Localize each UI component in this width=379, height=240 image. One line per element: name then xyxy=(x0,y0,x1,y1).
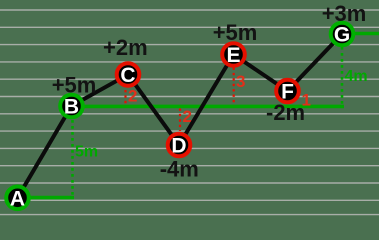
svg-text:5m: 5m xyxy=(75,144,98,161)
svg-text:3: 3 xyxy=(236,72,245,91)
baseline A level xyxy=(30,196,74,200)
node A xyxy=(6,187,29,211)
dotted 5m measure xyxy=(71,120,74,197)
svg-text:B: B xyxy=(64,96,79,119)
node D xyxy=(168,134,191,158)
svg-text:-2m: -2m xyxy=(266,100,305,125)
baseline G level xyxy=(354,32,379,36)
node G xyxy=(331,23,354,47)
svg-text:-4m: -4m xyxy=(160,156,199,181)
svg-text:+3m: +3m xyxy=(322,1,367,26)
red dotted E drop xyxy=(233,68,235,105)
svg-text:E: E xyxy=(226,44,240,67)
dotted 4m measure xyxy=(341,47,344,104)
path A-B-C-D-E-F-G xyxy=(18,34,343,198)
node E xyxy=(222,43,245,67)
red dotted D rise xyxy=(179,109,181,132)
svg-text:+5m: +5m xyxy=(52,73,97,98)
svg-text:2: 2 xyxy=(128,87,137,106)
svg-text:+2m: +2m xyxy=(103,35,148,60)
node F xyxy=(276,80,299,104)
baseline B level xyxy=(83,105,344,109)
svg-text:G: G xyxy=(334,24,350,47)
svg-text:4m: 4m xyxy=(345,68,368,85)
svg-text:D: D xyxy=(171,135,186,158)
svg-text:+5m: +5m xyxy=(213,20,258,45)
node C xyxy=(117,63,140,87)
svg-text:A: A xyxy=(10,187,25,210)
red dotted C drop xyxy=(124,90,126,105)
node B xyxy=(60,95,83,119)
svg-text:C: C xyxy=(120,64,135,87)
